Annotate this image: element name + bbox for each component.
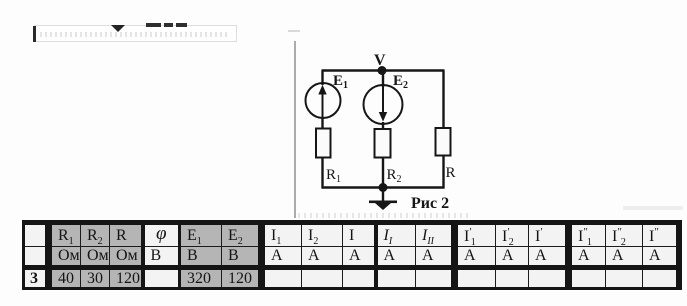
ground symbol (369, 201, 397, 211)
wire: junction to ground (382, 188, 384, 202)
svg-text:R1: R1 (326, 167, 341, 185)
artifact: dark dashes (146, 23, 161, 27)
svg-text:E1: E1 (333, 73, 348, 91)
circuit figure bottom speckle band (298, 213, 472, 218)
source E2 (circle with down arrow) (364, 85, 403, 124)
artifact: black vertical bar (33, 26, 36, 42)
wire: R to bottom bus (442, 156, 444, 189)
artifact small dash top (288, 30, 300, 32)
artifact: down triangle marker (111, 25, 125, 32)
resistor R (436, 128, 451, 156)
faint cut-off box above table right (623, 206, 683, 210)
wire: E2 branch top segment (382, 71, 384, 88)
node V (top junction dot) (378, 66, 387, 75)
svg-text:R2: R2 (387, 167, 402, 185)
wire: bottom bus (322, 186, 445, 188)
top-left scan artifact strip (34, 25, 237, 42)
resistor R1 (316, 129, 331, 158)
wire: top bus from E1 branch to R branch (322, 69, 445, 71)
svg-text:E2: E2 (393, 73, 408, 91)
source E1 (circle with up arrow) (306, 83, 341, 118)
svg-text:V: V (374, 52, 386, 69)
artifact: faint text speckle row (40, 32, 230, 37)
circuit figure frame left gray line (294, 41, 296, 218)
resistor R2 (375, 129, 391, 158)
wire: R1 to bottom bus (321, 157, 323, 189)
wire: E2 to R2 (382, 122, 384, 130)
svg-text:R: R (446, 165, 456, 181)
wire: E1 to R1 (321, 117, 323, 129)
wire: R2 to bottom bus (382, 157, 384, 189)
wire: E1 branch top segment (321, 71, 323, 86)
node: bottom junction dot (379, 183, 388, 192)
wire: R branch top segment (442, 71, 444, 130)
svg-text:Рис 2: Рис 2 (411, 195, 449, 212)
